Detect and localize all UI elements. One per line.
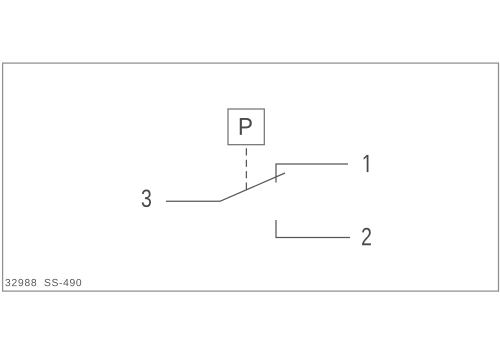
wire: terminal 2 lead with contact stub [276, 220, 350, 238]
part number 32988 [5, 279, 36, 286]
pin label 3 [142, 189, 151, 207]
actuator linkage (dashed) [245, 148, 247, 189]
pin label 2 [362, 228, 371, 245]
wire: terminal 1 lead with contact stub [276, 164, 348, 183]
part code SS-490 [44, 279, 81, 286]
pin label 1 [364, 155, 369, 172]
pushbutton actuator box of switch SS-490 [228, 109, 264, 145]
switch lever (common pole from pin 3 toward pin 1) [220, 173, 285, 201]
actuator label P [240, 118, 252, 135]
wire: terminal 3 lead [166, 200, 220, 202]
